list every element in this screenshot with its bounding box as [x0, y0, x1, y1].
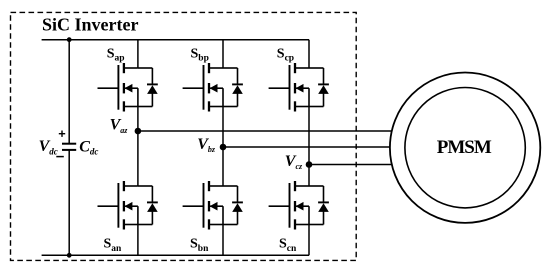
wire: phase b output to motor — [223, 146, 390, 148]
wire: phase c upper drain lead — [308, 40, 310, 68]
transistor Scn (SiC MOSFET) — [269, 181, 309, 230]
node Vcz — [306, 161, 313, 168]
transistor San (SiC MOSFET) — [98, 181, 138, 230]
body diode of San — [138, 186, 158, 225]
node Vaz — [135, 128, 142, 135]
wire: phase c midpoint lead — [308, 107, 310, 187]
wire: phase a upper drain lead — [137, 40, 139, 68]
svg-text:Sbp: Sbp — [191, 46, 209, 63]
wire: phase a midpoint lead — [137, 107, 139, 187]
wire: positive DC rail — [42, 39, 309, 41]
junction: bus to positive rail — [67, 37, 72, 42]
motor PMSM outer circle — [390, 73, 540, 223]
wire: phase a output to motor — [138, 130, 392, 132]
wire: phase a lower source lead — [137, 225, 139, 256]
body diode of Sap — [138, 68, 158, 107]
body diode of Sbp — [223, 68, 243, 107]
svg-text:Vbz: Vbz — [197, 136, 216, 154]
transistor Sbp (SiC MOSFET) — [183, 63, 223, 112]
transistor Sbn (SiC MOSFET) — [183, 181, 223, 230]
transistor Sap (SiC MOSFET) — [98, 63, 138, 112]
motor PMSM inner circle — [405, 88, 525, 208]
wire: phase b lower source lead — [222, 225, 224, 256]
wire: negative DC rail — [42, 254, 309, 256]
wire: DC bus upper segment — [68, 40, 70, 144]
wire: phase c output to motor — [309, 164, 392, 166]
capacitor Cdc — [62, 144, 76, 150]
dashed enclosure: SiC inverter boundary — [11, 12, 357, 260]
svg-text:Vcz: Vcz — [285, 153, 303, 171]
svg-text:Cdc: Cdc — [79, 138, 98, 156]
svg-text:Vaz: Vaz — [110, 117, 129, 135]
svg-text:Sap: Sap — [107, 46, 125, 63]
wire: phase c lower source lead — [308, 225, 310, 256]
body diode of Sbn — [223, 186, 243, 225]
wire: phase b midpoint lead — [222, 107, 224, 187]
body diode of Scp — [309, 68, 329, 107]
wire: phase b upper drain lead — [222, 40, 224, 68]
polarity minus sign — [56, 156, 64, 158]
transistor Scp (SiC MOSFET) — [269, 63, 309, 112]
polarity plus sign — [59, 131, 65, 137]
wire: DC bus lower segment — [68, 150, 70, 255]
svg-text:PMSM: PMSM — [437, 137, 492, 158]
svg-text:Scn: Scn — [279, 237, 297, 254]
svg-text:Scp: Scp — [277, 46, 294, 63]
svg-text:SiC Inverter: SiC Inverter — [42, 14, 138, 34]
junction: bus to negative rail — [67, 253, 72, 258]
node Vbz — [220, 144, 227, 151]
svg-text:Vdc: Vdc — [39, 138, 58, 156]
svg-text:San: San — [104, 237, 123, 254]
svg-text:Sbn: Sbn — [190, 237, 209, 254]
body diode of Scn — [309, 186, 329, 225]
